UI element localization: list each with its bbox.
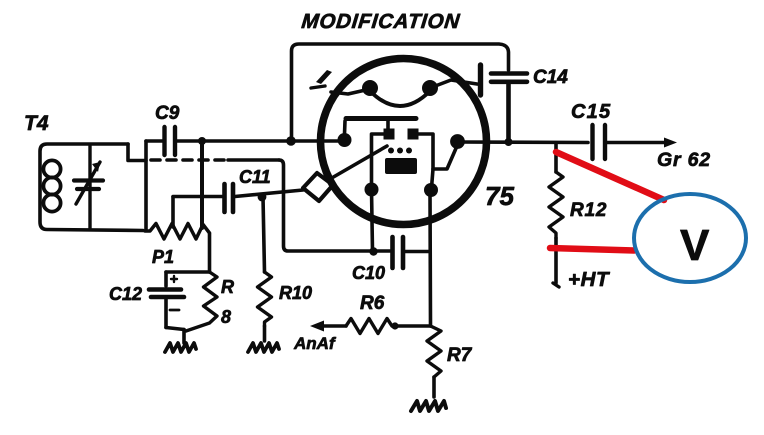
wire grid bus y=141 — [146, 139, 163, 143]
node R6 right — [391, 322, 398, 329]
wire filament left lead — [331, 89, 370, 94]
svg-text:C10: C10 — [352, 263, 385, 283]
capacitor C12 electrolytic — [166, 270, 210, 274]
capacitor C11 — [225, 184, 234, 212]
svg-text:R10: R10 — [279, 283, 312, 303]
svg-text:R6: R6 — [360, 293, 385, 314]
capacitor C15 — [593, 125, 606, 159]
wire filament right lead to plate tick — [430, 80, 477, 88]
wire step from tank top to grid node — [128, 144, 146, 161]
polarity plus — [171, 276, 177, 282]
resistor R12 — [554, 143, 558, 172]
resistor R7 — [427, 326, 441, 377]
wire P1 top feed x=202 — [200, 141, 204, 228]
capacitor C9 — [165, 127, 176, 155]
filament arc — [370, 91, 430, 106]
svg-text:C11: C11 — [239, 167, 271, 187]
svg-text:V: V — [680, 221, 710, 270]
wire to bottom right pin — [432, 169, 434, 188]
wire C10 row right of plates — [405, 250, 430, 254]
capacitor variable (tuning) — [74, 146, 103, 229]
tube plate block — [385, 158, 417, 174]
wire left vertical node column x=146 — [144, 141, 148, 229]
capacitor C14 — [491, 74, 527, 147]
svg-text:75: 75 — [485, 181, 514, 211]
inductor T4 coil loops — [43, 160, 60, 211]
ground under R10 — [248, 343, 279, 352]
ground under C12/R8 — [165, 343, 196, 352]
capacitor C10 — [393, 237, 404, 268]
voltmeter V body — [634, 194, 746, 282]
pin cathode bottom left — [365, 183, 379, 197]
wire cathode drop x=372 — [372, 190, 373, 251]
node junction of box left edge on grid wire — [286, 136, 296, 146]
pin plate right — [450, 134, 465, 149]
wire bar stem — [386, 121, 390, 129]
svg-text:T4: T4 — [24, 112, 49, 135]
node junction at cathode drop — [369, 247, 377, 255]
wire R6 to R7 node — [395, 324, 431, 328]
wire modification box (left edge, top edge, right edge to C14) — [292, 44, 509, 139]
wire plate terminal tick near C14 — [478, 65, 483, 95]
wire P1 wiper — [171, 197, 175, 227]
svg-text:C9: C9 — [155, 103, 180, 124]
wire cathode cage left — [372, 134, 385, 188]
pin bottom right — [424, 183, 438, 197]
voltmeter probe lead bottom (red) — [550, 248, 634, 251]
wire plate link right — [418, 134, 457, 169]
wire AnAf lead — [322, 324, 346, 328]
tube envelope 75 — [321, 59, 487, 225]
arrow output end — [664, 138, 677, 148]
wire grid riser — [343, 121, 347, 134]
wire grid cap diagonal into tube — [330, 146, 387, 179]
svg-text:R7: R7 — [447, 345, 473, 366]
pin grid — [338, 133, 352, 147]
grid bar — [346, 116, 416, 121]
tube grid dots — [388, 148, 394, 154]
svg-text:C14: C14 — [533, 67, 568, 88]
svg-text:+HT: +HT — [568, 268, 610, 291]
filament pins — [362, 80, 378, 96]
wire C11 to grid cap diamond — [235, 190, 303, 197]
wire wiper to C11 — [173, 195, 222, 199]
resistor R6 — [346, 319, 392, 334]
svg-text:P1: P1 — [152, 247, 174, 267]
transformer T4 tank outline — [40, 144, 143, 231]
svg-text:R: R — [221, 277, 234, 297]
tube inner contact squares — [384, 129, 395, 140]
svg-text:C15: C15 — [571, 101, 611, 123]
node junction above R10 — [258, 193, 267, 202]
svg-text:R12: R12 — [570, 200, 607, 221]
wire plate output bus — [457, 140, 588, 144]
arrow AnAf output — [310, 321, 324, 332]
resistor R8 — [208, 234, 212, 272]
wire dashed old grid route y=160 — [151, 158, 228, 162]
svg-text:C12: C12 — [109, 284, 142, 304]
svg-text:AnAf: AnAf — [293, 334, 337, 353]
svg-text:MODIFICATION: MODIFICATION — [301, 10, 462, 33]
filament marker F — [316, 70, 332, 84]
resistor R10 — [263, 197, 265, 272]
ground under R7 — [411, 401, 446, 411]
svg-text:8: 8 — [221, 307, 231, 327]
wire C12 ground stub — [182, 330, 186, 344]
node junction at x=202 — [198, 137, 206, 145]
svg-text:Gr 62: Gr 62 — [657, 149, 711, 171]
grid cap diamond — [303, 173, 333, 201]
voltmeter probe lead top (red) — [556, 152, 664, 200]
polarity minus — [170, 309, 179, 312]
wire output to Gr 62 — [607, 141, 668, 145]
wire anode column x=430 — [428, 191, 432, 326]
potentiometer P1 — [145, 224, 210, 240]
